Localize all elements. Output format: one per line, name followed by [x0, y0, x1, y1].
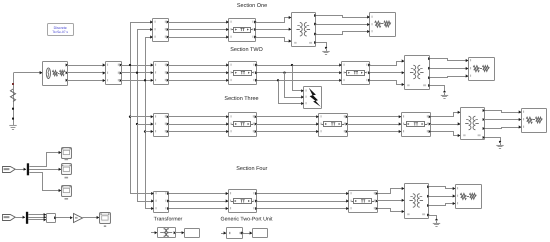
- svg-text:Section One: Section One: [237, 3, 267, 9]
- svg-text:Ts=5e-07 s: Ts=5e-07 s: [52, 30, 68, 34]
- svg-text:Section TWO: Section TWO: [230, 47, 263, 53]
- svg-text:Generic Two-Port Unit: Generic Two-Port Unit: [220, 216, 273, 222]
- svg-text:Section Three: Section Three: [224, 96, 258, 102]
- svg-text:Transformer: Transformer: [154, 216, 183, 222]
- svg-text:Section Four: Section Four: [236, 166, 267, 172]
